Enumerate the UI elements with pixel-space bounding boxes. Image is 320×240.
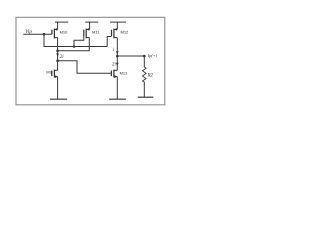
svg-text:2i: 2i [60, 55, 65, 60]
svg-text:R2: R2 [147, 73, 154, 78]
svg-text:Vip: Vip [25, 30, 32, 35]
svg-text:M9: M9 [46, 69, 52, 74]
svg-text:M11: M11 [92, 30, 100, 35]
svg-text:2i: 2i [112, 62, 117, 67]
svg-text:M12: M12 [121, 30, 130, 35]
svg-text:Ip(+): Ip(+) [147, 53, 158, 58]
svg-text:M13: M13 [120, 71, 129, 76]
svg-text:M10: M10 [60, 30, 69, 35]
